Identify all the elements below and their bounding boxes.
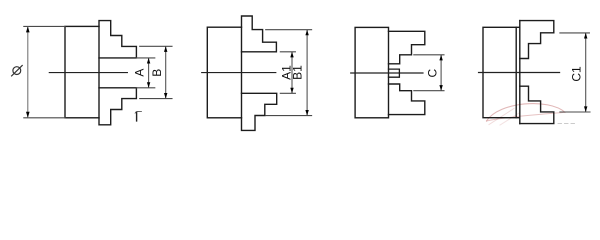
arrow A bottom: [147, 82, 150, 88]
watermark diagonal 1: [489, 109, 514, 125]
dimension line C: [440, 55, 442, 90]
dimension line Ø: [27, 27, 29, 117]
extension line A top: [136, 57, 154, 59]
extension line A1 top: [280, 51, 295, 53]
dimension line A: [148, 59, 150, 88]
chuck 4 body top edge bridge: [516, 26, 520, 28]
watermark arc upper: [487, 104, 566, 121]
chuck 1 centerline: [49, 72, 127, 74]
svg-text:C1: C1: [570, 66, 584, 82]
arrow C1 top: [584, 33, 587, 39]
svg-text:B: B: [150, 69, 164, 77]
svg-text:B1: B1: [290, 65, 304, 80]
extension line B bottom: [140, 98, 172, 100]
dimension line C1: [585, 34, 587, 112]
chuck 3 centerline: [351, 72, 423, 74]
arrow B1 bottom: [305, 110, 308, 116]
arrow B top: [164, 46, 167, 52]
chuck 3 central boss: [389, 69, 400, 77]
chuck 2 bottom jaw: [242, 93, 277, 130]
chuck 1 bottom jaw: [99, 88, 136, 125]
extension line B1 top: [266, 29, 312, 31]
extension line C1 top: [560, 32, 590, 34]
chuck 2 top jaw: [242, 16, 277, 52]
arrow B bottom: [164, 93, 167, 99]
chuck 1 body: [65, 26, 99, 117]
extension line B top: [140, 45, 172, 47]
watermark arc lower: [487, 112, 566, 121]
chuck 4 jaw guide face: [519, 21, 521, 124]
extension line C bottom: [414, 90, 444, 92]
arrow A1 top: [290, 52, 293, 58]
arrow A1 bottom: [290, 88, 293, 94]
arrow C top: [439, 55, 442, 61]
arrow Ø top: [26, 26, 30, 32]
arrow C1 bottom: [584, 106, 587, 112]
chuck 4 jaw bottom ghost line: [558, 123, 577, 125]
chuck 1 bottom extension line (diameter): [24, 117, 65, 119]
chuck 4 top jaw: [520, 21, 554, 59]
dimension line B: [165, 47, 167, 98]
chuck 4 body bottom edge bridge: [516, 117, 520, 119]
watermark diagonal 2: [500, 113, 520, 126]
chuck 3 body: [355, 27, 388, 117]
chuck 4 centerline: [479, 72, 560, 74]
dimension line B1: [306, 30, 308, 115]
extension line C top: [414, 54, 444, 56]
svg-text:C: C: [426, 69, 440, 78]
label Ø symbol: [13, 67, 21, 75]
arrow Ø bottom: [26, 112, 30, 118]
chuck 4 bottom jaw: [520, 86, 554, 123]
chuck 3 bottom jaw: [389, 84, 425, 115]
chuck 4 body: [483, 27, 516, 117]
arrow C bottom: [439, 85, 442, 91]
chuck 1 top jaw: [99, 21, 136, 58]
chuck 1 top extension line (diameter): [24, 25, 65, 27]
chuck 2 body: [207, 27, 241, 118]
extension line A1 bottom: [280, 92, 295, 94]
extension line B1 bottom: [266, 115, 312, 117]
dimension line A1: [291, 52, 293, 92]
extension line C1 bottom: [560, 111, 590, 113]
chuck 3 top jaw: [389, 31, 425, 64]
chuck 2 centerline: [202, 72, 276, 74]
label г: [135, 111, 142, 121]
svg-text:A: A: [132, 69, 146, 77]
arrow A top: [147, 58, 150, 64]
arrow B1 top: [305, 30, 308, 36]
extension line A bottom: [136, 87, 154, 89]
